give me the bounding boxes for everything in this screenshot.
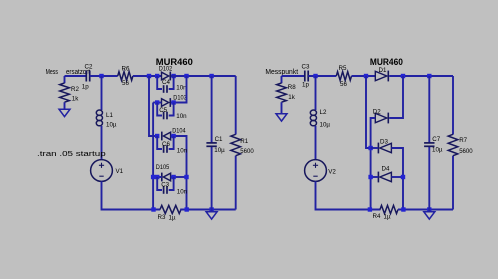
diode D105 <box>156 164 171 181</box>
node bottom ladder join <box>185 207 189 211</box>
wire R8 to ground <box>281 102 283 111</box>
svg-text:V2: V2 <box>328 168 336 175</box>
node C4 right <box>171 74 175 78</box>
ground under R2 <box>59 107 70 117</box>
wire down to R2 <box>64 76 66 83</box>
svg-text:5600: 5600 <box>240 148 254 155</box>
svg-text:1µ: 1µ <box>169 214 176 221</box>
title MUR460 right <box>370 57 403 67</box>
wire C7 bottom <box>428 146 430 209</box>
diode D1 <box>375 67 388 82</box>
node bottom ground join right <box>427 207 431 211</box>
wire left vertical v2 <box>152 103 154 210</box>
voltage source V1 <box>91 160 124 182</box>
resistor R5 <box>336 65 351 88</box>
svg-text:L2: L2 <box>320 109 327 116</box>
svg-text:1p: 1p <box>82 84 89 91</box>
node bottom v2 join <box>151 207 155 211</box>
wire C3 loop left <box>157 177 162 190</box>
wire C6 loop left <box>157 136 162 149</box>
wire right vertical v1 <box>366 76 371 148</box>
wire D102 to output rail <box>171 75 236 77</box>
wire R2 to ground <box>64 102 66 107</box>
svg-text:D1: D1 <box>379 67 387 74</box>
wire D4 right <box>391 176 403 178</box>
node at L2 tap <box>313 74 317 78</box>
voltage source V2 <box>305 160 337 182</box>
wire D103 anode <box>153 102 161 104</box>
node ladder input right <box>364 74 368 78</box>
svg-text:C2: C2 <box>85 63 93 70</box>
wire C1 top <box>211 76 213 143</box>
node D3 left junction <box>368 146 372 150</box>
resistor R1 <box>231 134 254 155</box>
node ladder input <box>147 74 151 78</box>
wire D105 right <box>171 176 187 178</box>
wire D2 anode down <box>371 118 376 210</box>
wire L2 drop <box>315 76 317 110</box>
svg-text:Messpunkt: Messpunkt <box>265 69 298 76</box>
wire C6 loop right <box>169 136 174 149</box>
capacitor C4 <box>162 79 187 93</box>
wire input to C2 <box>65 75 87 77</box>
svg-text:10n: 10n <box>177 189 188 196</box>
wire D4 left <box>371 176 379 178</box>
diode D103 <box>162 95 188 107</box>
node D103 right <box>171 100 175 104</box>
node output rail B <box>401 74 405 78</box>
svg-text:56: 56 <box>122 80 129 87</box>
svg-text:R8: R8 <box>288 84 296 91</box>
svg-text:C5: C5 <box>159 107 167 114</box>
svg-text:L1: L1 <box>106 112 113 119</box>
resistor R3 <box>158 205 182 221</box>
wire L1 to V1 <box>101 126 103 160</box>
svg-text:R1: R1 <box>240 138 248 145</box>
node C7 tap <box>427 74 431 78</box>
svg-text:C4: C4 <box>162 79 170 86</box>
wire D105 left <box>153 176 162 178</box>
resistor R4 <box>373 205 399 220</box>
node C1 tap <box>209 74 213 78</box>
svg-text:D104: D104 <box>172 128 186 135</box>
wire R1 top <box>235 76 237 135</box>
node bottom D3 join <box>401 207 405 211</box>
node at L1 tap <box>99 74 103 78</box>
node D4 right <box>401 175 405 179</box>
wire D104 anode right down <box>171 136 187 210</box>
inductor L1 <box>96 110 117 129</box>
wire R1 bottom <box>235 156 237 210</box>
diode D4 <box>378 166 391 183</box>
node D103 left <box>155 100 159 104</box>
svg-text:.tran .05 startup: .tran .05 startup <box>37 151 106 158</box>
diode D2 <box>373 109 389 124</box>
node C4 left <box>155 74 159 78</box>
wire D103 cathode up to rail <box>171 76 187 103</box>
svg-text:R6: R6 <box>122 66 130 73</box>
wire C2 to R6 <box>90 75 118 77</box>
wire C4 loop right <box>169 76 174 89</box>
svg-text:10µ: 10µ <box>106 122 117 129</box>
capacitor C3 input <box>302 63 310 88</box>
svg-text:D3: D3 <box>380 139 388 146</box>
node output to D103 branch <box>184 74 188 78</box>
svg-text:10n: 10n <box>177 147 188 154</box>
svg-text:R4: R4 <box>373 213 381 220</box>
svg-text:D105: D105 <box>156 164 170 171</box>
wire B down to D2 <box>389 76 403 118</box>
node D4 left <box>368 175 372 179</box>
wire C4 loop left <box>157 76 162 89</box>
svg-text:10µ: 10µ <box>214 147 225 154</box>
svg-text:C7: C7 <box>432 136 440 143</box>
svg-text:R5: R5 <box>339 65 347 72</box>
capacitor C2 <box>82 63 93 90</box>
wire V1 to bottom rail <box>102 181 161 209</box>
ground bottom left <box>206 210 217 220</box>
wire R5 to D1 <box>352 75 376 77</box>
node D105 right vertical tap <box>184 175 188 179</box>
svg-text:Mess: Mess <box>46 69 59 76</box>
wire input to C3 <box>282 75 305 77</box>
svg-text:1k: 1k <box>72 95 79 102</box>
wire C3 to R5 <box>308 75 336 77</box>
wire D3 anode down <box>391 148 403 210</box>
wire C5 loop right <box>169 103 174 116</box>
node D105 left loop tap <box>155 175 159 179</box>
svg-text:10µ: 10µ <box>432 147 443 154</box>
svg-text:56: 56 <box>340 81 347 88</box>
wire D3 left <box>371 147 379 149</box>
wire down to R8 <box>281 76 283 83</box>
resistor R8 <box>277 83 297 102</box>
resistor R6 <box>118 66 133 87</box>
svg-text:1k: 1k <box>288 94 295 101</box>
capacitor C5 <box>159 107 187 120</box>
node bottom ground join <box>209 207 213 211</box>
svg-text:R2: R2 <box>71 86 79 93</box>
svg-text:R3: R3 <box>158 214 166 221</box>
resistor R7 <box>448 134 473 155</box>
capacitor C7 <box>424 136 443 154</box>
ground bottom right <box>424 210 435 220</box>
wire R7 bottom <box>452 156 454 210</box>
node D104 right <box>171 134 175 138</box>
svg-text:D4: D4 <box>382 166 390 173</box>
wire bottom rail right <box>180 209 236 211</box>
wire C1 bottom <box>211 146 213 209</box>
node D105 left v2 tap <box>151 175 155 179</box>
node bottom rail v2 join <box>368 207 372 211</box>
svg-text:C1: C1 <box>215 136 223 143</box>
svg-text:R7: R7 <box>459 137 467 144</box>
svg-text:C3: C3 <box>161 182 169 189</box>
wire C5 loop left <box>157 103 162 116</box>
svg-text:10µ: 10µ <box>320 122 331 129</box>
wire R6 to diode ladder <box>133 75 162 77</box>
svg-text:MUR460: MUR460 <box>370 57 403 67</box>
wire L1 drop <box>101 76 103 110</box>
svg-text:1µ: 1µ <box>384 213 391 220</box>
svg-text:5600: 5600 <box>459 148 473 155</box>
wire C3 loop right <box>169 177 174 190</box>
svg-text:10n: 10n <box>176 113 187 120</box>
capacitor C6 <box>162 141 188 154</box>
wire bottom rail right side <box>398 209 453 211</box>
svg-text:D102: D102 <box>159 66 173 73</box>
wire C7 top <box>428 76 430 143</box>
inductor L2 <box>310 109 330 129</box>
capacitor C1 <box>206 136 225 154</box>
wire D1 to output rail <box>389 75 453 77</box>
wire R7 top <box>452 76 454 135</box>
diode D102 <box>159 66 173 81</box>
diode D3 <box>378 139 391 154</box>
node label "Mess ersatzort" <box>46 69 90 76</box>
title MUR460 left <box>156 57 193 67</box>
ground under R8 <box>276 112 287 122</box>
resistor R2 <box>60 83 80 102</box>
sim directive <box>37 151 106 158</box>
wire L2 to V2 <box>315 126 317 160</box>
node D104 left <box>155 134 159 138</box>
svg-text:V1: V1 <box>116 168 124 175</box>
svg-text:1p: 1p <box>302 82 309 89</box>
svg-text:D2: D2 <box>373 109 381 116</box>
svg-text:C6: C6 <box>162 141 170 148</box>
wire left vertical v1 <box>149 76 157 136</box>
capacitor C3 snubber <box>161 182 187 196</box>
diode D104 <box>162 128 186 141</box>
wire V2 to bottom rail <box>316 181 381 209</box>
node D105 right <box>171 175 175 179</box>
node label "Messpunkt" <box>265 69 298 76</box>
svg-text:C3: C3 <box>302 63 310 70</box>
